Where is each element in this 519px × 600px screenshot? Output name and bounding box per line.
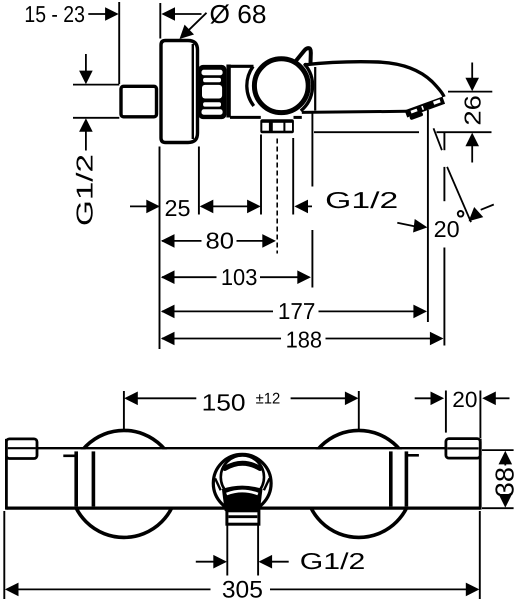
wall pipe stub bbox=[121, 86, 157, 117]
aerator band (black, angled) bbox=[405, 97, 447, 122]
handle main circle bbox=[254, 59, 308, 113]
20 degree angle annotation bbox=[434, 128, 442, 150]
svg-text:38: 38 bbox=[489, 467, 519, 497]
extension line block right bbox=[292, 138, 294, 215]
svg-text:Ø 68: Ø 68 bbox=[210, 0, 267, 29]
leader arrowhead at escutcheon top bbox=[175, 25, 194, 44]
body bottom edge right segment bbox=[294, 116, 302, 119]
valve body left end bar bbox=[226, 65, 230, 118]
left wall escutcheon circle bbox=[70, 430, 177, 537]
extension line block left bbox=[260, 135, 262, 215]
handle flange arc right bbox=[301, 64, 313, 111]
extension line spout drop (103) upper bbox=[311, 114, 313, 187]
down arrow to stub top bbox=[85, 54, 87, 72]
bar left edge bbox=[5, 439, 8, 510]
dimension 20 (top right) bbox=[445, 391, 447, 433]
svg-text:188: 188 bbox=[286, 327, 323, 353]
svg-text:±12: ±12 bbox=[256, 390, 281, 407]
outlet pipe lines bbox=[226, 526, 228, 576]
temperature stop block under handle bbox=[260, 119, 294, 133]
dimension G1/2 row (mid) bbox=[294, 200, 308, 214]
svg-text:150: 150 bbox=[202, 389, 246, 415]
extension line spout tip (188) segments bbox=[443, 133, 445, 150]
extension line escutcheon back bbox=[198, 147, 200, 215]
escutcheon (wall flange) bbox=[161, 41, 198, 143]
right S-union cap box bbox=[446, 439, 480, 459]
outlet nut bbox=[227, 511, 259, 524]
extension line at pipe stub left face bbox=[118, 2, 120, 84]
right dividers bbox=[389, 451, 393, 506]
thermostat knob outer circle bbox=[213, 454, 271, 512]
body bottom edge left segment bbox=[230, 116, 261, 119]
spout top edge curve bbox=[304, 62, 444, 97]
main extension line escutcheon face bbox=[159, 147, 161, 350]
bar bottom edge bbox=[6, 507, 480, 510]
left tick bbox=[63, 454, 76, 457]
knob grip cone (black) bbox=[222, 486, 263, 513]
dashed center line of handle bbox=[276, 139, 278, 254]
extension line at escutcheon left face (top) bbox=[159, 3, 161, 39]
grip highlight stripe bbox=[227, 491, 258, 494]
svg-text:305: 305 bbox=[222, 577, 263, 600]
svg-text:G1/2: G1/2 bbox=[325, 187, 398, 213]
dimension 103 row bbox=[161, 270, 175, 284]
svg-text:G1/2: G1/2 bbox=[300, 548, 366, 574]
pipe stub bottom reference line bbox=[73, 117, 119, 119]
escutcheon front-face edge line bbox=[192, 44, 194, 139]
spout bottom edge bbox=[302, 111, 407, 112]
dimension 25 row bbox=[130, 205, 158, 207]
bar right edge bbox=[479, 439, 482, 510]
svg-text:15 - 23: 15 - 23 bbox=[24, 1, 85, 27]
svg-text:103: 103 bbox=[221, 264, 258, 290]
up arrow to stub bottom bbox=[79, 118, 93, 132]
knurled connector nut (black with slots) bbox=[198, 65, 226, 119]
dimension 150 +/-12 bbox=[123, 391, 125, 429]
dimension 188 row bbox=[161, 332, 175, 346]
svg-text:177: 177 bbox=[278, 298, 316, 324]
knob top inner shadow arc bbox=[225, 463, 260, 468]
knob inner circle bbox=[221, 456, 264, 499]
mixer body bar fill bbox=[8, 449, 479, 506]
svg-text:G1/2: G1/2 bbox=[72, 154, 98, 226]
extension line aerator (177) bbox=[427, 110, 429, 322]
right wall escutcheon circle bbox=[305, 430, 412, 537]
svg-text:20: 20 bbox=[434, 216, 460, 242]
dimension 38 (right) bbox=[482, 449, 514, 451]
svg-text:26: 26 bbox=[460, 95, 486, 126]
svg-text:80: 80 bbox=[206, 227, 235, 253]
knob side tab left bbox=[215, 478, 221, 490]
handle lever bbox=[296, 48, 311, 63]
leader line for Ø68 bbox=[184, 13, 207, 35]
dimension 80 row bbox=[161, 234, 175, 248]
left dividers bbox=[74, 451, 78, 506]
spout joint vertical line bbox=[314, 67, 316, 111]
left S-union cap box bbox=[6, 439, 37, 459]
svg-text:20: 20 bbox=[452, 387, 477, 412]
body top edge bbox=[230, 65, 254, 68]
knob side tab right bbox=[264, 478, 270, 490]
dimension 26 (spout drop) bbox=[448, 91, 492, 93]
bar top edge bbox=[37, 447, 446, 449]
dimension arrow 15-23 right bbox=[88, 13, 106, 15]
dimension 305 bbox=[3, 511, 5, 599]
dimension arrow 15-23 left-pointing at escutcheon face bbox=[161, 7, 175, 21]
dimension 177 row bbox=[161, 305, 175, 319]
pipe stub top reference line bbox=[73, 84, 119, 86]
extension line spout drop (103) lower bbox=[311, 230, 313, 288]
handle flange arc left bbox=[247, 66, 254, 106]
right tick bbox=[406, 454, 419, 457]
dimension G1/2 (bottom outlet) bbox=[196, 561, 225, 563]
svg-text:25: 25 bbox=[165, 195, 191, 221]
